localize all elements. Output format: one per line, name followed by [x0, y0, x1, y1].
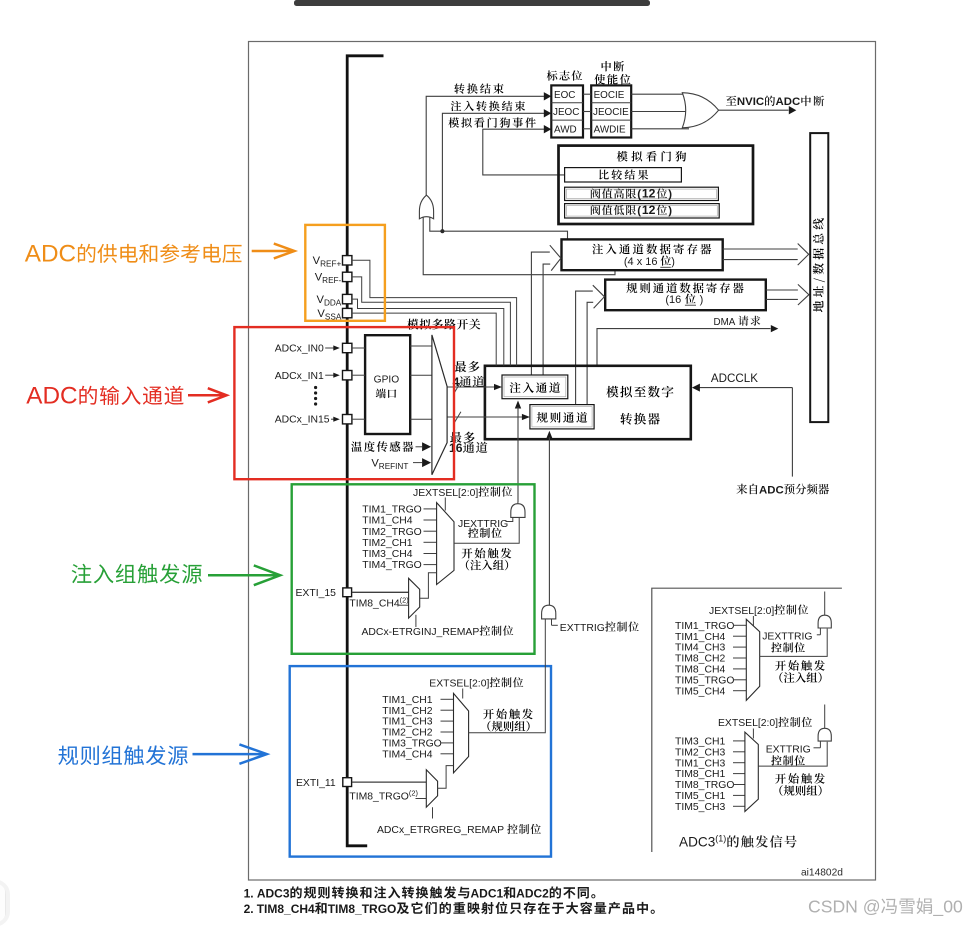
block: analog watchdog — [559, 146, 754, 224]
pin: EXTI_11 — [296, 778, 426, 789]
svg-text:TIM8_CH4: TIM8_CH4 — [675, 665, 725, 676]
page top dark bar — [294, 0, 650, 6]
AND gate: EXTTRIG — [542, 604, 556, 619]
svg-text:TIM4_TRGO: TIM4_TRGO — [362, 560, 421, 571]
input: TIM2_CH1 (injected) — [362, 538, 436, 549]
svg-text:1.: 1. — [244, 886, 254, 900]
pin: EXTI_15 — [296, 588, 409, 599]
svg-text:TIM1_CH1: TIM1_CH1 — [382, 695, 432, 706]
wire: injected mux output to AND gate — [454, 518, 519, 543]
input: TIM5_CH4 (ADC3 injected) — [675, 686, 746, 697]
label: from ADC prescaler — [737, 484, 830, 497]
box: watchdog high threshold — [565, 187, 719, 201]
wire: injected conversion end into OR gate — [430, 217, 568, 239]
svg-text:EXTSEL[2:0]: EXTSEL[2:0] — [718, 718, 778, 729]
input: TIM5_CH1 (ADC3 regular) — [675, 791, 745, 802]
svg-text:_00: _00 — [932, 897, 963, 918]
label: start trigger regular group — [483, 709, 533, 732]
label: interrupt enable bits — [594, 61, 630, 84]
svg-text:TIM8_TRGO: TIM8_TRGO — [675, 780, 734, 791]
register: status flags EOC/JEOC/AWD — [551, 85, 583, 137]
svg-text:ADC2: ADC2 — [516, 886, 549, 900]
label: JEXTTRIG control bit (ADC3) — [762, 628, 820, 653]
svg-text:TIM1_CH4: TIM1_CH4 — [362, 516, 412, 527]
label: start trigger regular group (ADC3) — [775, 773, 825, 796]
bus arrow: injected channels to injected register — [531, 245, 561, 375]
input: TIM5_TRGO (ADC3 injected) — [675, 675, 746, 686]
mux: regular trigger select — [454, 693, 469, 773]
input: TIM1_TRGO (injected) — [362, 505, 436, 516]
svg-text:CSDN @: CSDN @ — [808, 897, 881, 917]
label: VREFINT — [371, 457, 431, 471]
block: analog to digital converter — [485, 366, 691, 439]
block: GPIO port — [365, 335, 410, 434]
svg-text:JEXTSEL[2:0]: JEXTSEL[2:0] — [413, 488, 478, 499]
svg-text:12: 12 — [642, 203, 656, 217]
svg-text:ADCx_IN15: ADCx_IN15 — [275, 415, 330, 426]
svg-text:DDA: DDA — [324, 298, 342, 307]
wire: JEOCIE to OR gate — [631, 111, 686, 113]
box: compare result — [565, 168, 682, 182]
svg-text:ADC: ADC — [759, 484, 784, 496]
label: EXTTRIG control bit (ADC3) — [766, 741, 821, 765]
input: TIM1_CH2 (regular) — [382, 706, 453, 717]
svg-text:TIM3_CH4: TIM3_CH4 — [362, 549, 412, 560]
svg-text:ADC3: ADC3 — [679, 835, 715, 850]
svg-text:ai14802d: ai14802d — [801, 867, 843, 878]
label: figure id ai14802d — [801, 867, 843, 878]
pin: ADCx_IN0 — [275, 343, 352, 354]
svg-text:12: 12 — [642, 187, 656, 201]
mux: ADC3 regular trigger select — [745, 732, 758, 811]
svg-text:TIM8_CH4: TIM8_CH4 — [349, 599, 399, 610]
AND gate: JEXTTRIG (ADC3) — [818, 592, 831, 629]
input: TIM1_CH4 (ADC3 injected) — [675, 632, 746, 643]
input: TIM2_TRGO (injected) — [362, 527, 436, 538]
svg-text:TIM1_TRGO: TIM1_TRGO — [675, 621, 734, 632]
wire: GPIO to mux c — [410, 418, 432, 420]
ADC3 inset frame — [652, 588, 842, 852]
wire: injected trigger into injected channels — [515, 401, 521, 503]
footnote 2 — [244, 902, 655, 916]
svg-text:2.: 2. — [244, 902, 254, 916]
svg-text:AWD: AWD — [554, 125, 577, 136]
mux: ADC3 injected trigger select — [746, 619, 759, 700]
input: TIM1_CH3 (regular) — [382, 717, 453, 728]
svg-text:TIM2_CH1: TIM2_CH1 — [362, 538, 412, 549]
svg-text:ADCx_ETRGREG_REMAP: ADCx_ETRGREG_REMAP — [377, 825, 504, 836]
bus arrow: regular register to bus — [766, 284, 809, 305]
highlight box: ADC input channels — [234, 327, 454, 479]
register: interrupt enables EOCIE/JEOCIE/AWDIE — [591, 85, 631, 137]
svg-text:EXTSEL[2:0]: EXTSEL[2:0] — [429, 679, 489, 690]
svg-text:TIM5_CH1: TIM5_CH1 — [675, 791, 725, 802]
wire: DMA request — [597, 316, 778, 366]
label: TIM8_CH4 remap input — [349, 596, 408, 610]
annotation: regular group trigger source — [58, 744, 266, 765]
wire: remap control stub (regular) — [432, 807, 434, 818]
label: up to 4 channels — [453, 361, 485, 389]
annotation: injected group trigger source — [72, 564, 281, 585]
svg-text:JEOC: JEOC — [553, 107, 579, 118]
input: TIM2_CH3 (ADC3 regular) — [675, 747, 745, 758]
input: TIM1_CH4 (injected) — [362, 516, 436, 527]
svg-text:REFINT: REFINT — [379, 462, 409, 471]
annotation: ADC supply and reference voltage — [25, 240, 295, 267]
svg-text:(16: (16 — [665, 294, 681, 306]
wire: ADCCLK — [692, 372, 793, 477]
svg-text:TIM5_CH3: TIM5_CH3 — [675, 802, 725, 813]
label: start trigger injected group — [462, 548, 512, 571]
OR gate: ADC interrupt to NVIC — [682, 93, 718, 128]
svg-text:TIM5_TRGO: TIM5_TRGO — [675, 675, 734, 686]
floating corner button — [0, 880, 8, 926]
input: TIM4_TRGO (injected) — [362, 560, 436, 571]
pin: VSSA — [317, 308, 496, 366]
svg-text:REF-: REF- — [322, 276, 341, 285]
AND gate: EXTTRIG (ADC3) — [818, 705, 831, 742]
svg-text:GPIO: GPIO — [374, 374, 400, 385]
svg-text:ADC1: ADC1 — [471, 886, 504, 900]
svg-text:EOC: EOC — [554, 90, 575, 101]
svg-text:ADC: ADC — [26, 382, 77, 409]
svg-text:ADCx_IN1: ADCx_IN1 — [275, 371, 324, 382]
box: injected channels — [502, 375, 568, 399]
svg-text:(4 x 16: (4 x 16 — [624, 256, 658, 268]
svg-text:): ) — [668, 189, 672, 201]
watermark CSDN — [808, 897, 963, 918]
svg-text:): ) — [671, 256, 675, 268]
input: TIM3_TRGO (regular) — [382, 739, 453, 750]
wire: mux to regular channels (up to 16) — [447, 412, 530, 423]
svg-text:REF+: REF+ — [320, 260, 341, 269]
label: JEXTSEL control bits — [413, 487, 512, 511]
wire: analog watchdog event to AWD flag — [448, 117, 564, 175]
svg-text:TIM4_CH3: TIM4_CH3 — [675, 643, 725, 654]
label: JEXTSEL control bits (ADC3) — [709, 605, 808, 626]
svg-text:EXTI_15: EXTI_15 — [296, 588, 337, 599]
register: injected channel data (4x16) — [562, 239, 723, 270]
label: ADCx-ETRGINJ_REMAP control bit — [362, 626, 514, 638]
wire: mux to injected channels (up to 4) — [447, 382, 502, 393]
analog input rail — [347, 56, 383, 846]
label: TIM8_TRGO remap input — [349, 788, 426, 802]
analog mux — [407, 319, 480, 475]
svg-text:TIM8_TRGO: TIM8_TRGO — [328, 902, 397, 916]
pin: ADCx_IN15 — [275, 415, 352, 426]
svg-text:TIM8_CH4: TIM8_CH4 — [257, 902, 315, 916]
svg-text:TIM1_CH2: TIM1_CH2 — [382, 706, 432, 717]
svg-text:16: 16 — [449, 441, 463, 455]
AND gate: JEXTTRIG — [511, 502, 525, 517]
svg-text:JEXTTRIG: JEXTTRIG — [762, 632, 812, 643]
svg-text:EXTI_11: EXTI_11 — [296, 778, 336, 789]
mux: injected external trigger remap — [409, 578, 420, 618]
wire: regular conversion end into OR gate — [423, 217, 615, 275]
svg-text:TIM1_CH3: TIM1_CH3 — [382, 717, 432, 728]
wire: end-of-conversion to EOC flag — [426, 83, 551, 196]
label: ADCx_ETRGREG_REMAP control bit — [377, 824, 541, 836]
block: address/data bus — [810, 133, 828, 422]
ellipsis dots input channels — [314, 386, 317, 406]
svg-text:DMA: DMA — [714, 317, 736, 328]
label: flag bits — [547, 70, 582, 80]
pin: VDDA — [317, 294, 504, 366]
label: JEXTTRIG control bit — [458, 517, 513, 538]
wire: injected end-of-conversion to JEOC flag — [442, 101, 551, 231]
svg-text:): ) — [668, 205, 672, 217]
input: TIM3_CH4 (injected) — [362, 549, 436, 560]
input: TIM8_CH1 (ADC3 regular) — [675, 769, 745, 780]
svg-text:TIM1_TRGO: TIM1_TRGO — [362, 505, 421, 516]
svg-text:TIM1_CH3: TIM1_CH3 — [675, 758, 725, 769]
svg-text:JEXTSEL[2:0]: JEXTSEL[2:0] — [709, 606, 774, 617]
bus arrow: injected register to bus — [723, 244, 809, 266]
label: ADC3 trigger signals title — [679, 834, 797, 850]
svg-text:TIM1_CH4: TIM1_CH4 — [675, 632, 725, 643]
wire: AWDIE to OR gate — [631, 128, 689, 130]
svg-text:TIM2_CH3: TIM2_CH3 — [675, 747, 725, 758]
input: TIM1_CH3 (ADC3 regular) — [675, 758, 745, 769]
wire: GPIO to mux a — [410, 345, 432, 347]
pin: VREF- — [315, 272, 511, 366]
highlight box: ADC supply and reference — [305, 225, 385, 321]
svg-text:): ) — [700, 294, 704, 306]
wire: EOC to EOCIE stub — [583, 93, 591, 95]
box: watchdog low threshold — [565, 203, 720, 218]
wire: IN15 pad to GPIO — [352, 418, 365, 420]
svg-text:TIM8_CH1: TIM8_CH1 — [675, 769, 725, 780]
wire: IN0 pad to GPIO — [352, 347, 365, 349]
input: TIM4_CH3 (ADC3 injected) — [675, 643, 746, 654]
svg-text:TIM2_TRGO: TIM2_TRGO — [362, 527, 421, 538]
svg-text:ADC: ADC — [776, 96, 801, 108]
svg-text:EOCIE: EOCIE — [594, 90, 625, 101]
label: EXTSEL control bits — [429, 677, 523, 698]
highlight box: injected trigger group — [292, 484, 535, 654]
wire: remap mux to injected mux — [420, 573, 437, 599]
register: regular channel data (16) — [605, 280, 766, 311]
OR gate: EOC sources — [419, 195, 433, 219]
svg-text:AWDIE: AWDIE — [594, 125, 626, 136]
input: TIM2_CH2 (regular) — [382, 728, 453, 739]
wire: regular trigger into regular channels — [546, 431, 552, 607]
wire: GPIO to mux b — [410, 374, 432, 376]
wire: regular mux output to AND gate — [469, 620, 546, 733]
svg-text:ADCx_IN0: ADCx_IN0 — [275, 344, 324, 355]
input: TIM8_CH2 (ADC3 injected) — [675, 654, 746, 665]
svg-text:NVIC: NVIC — [737, 96, 764, 108]
wire: JEOC to JEOCIE stub — [583, 111, 591, 113]
highlight box: regular trigger group — [290, 666, 551, 857]
wire: ADC3 regular mux to AND gate — [758, 742, 827, 766]
input: TIM8_CH4 (ADC3 injected) — [675, 665, 746, 676]
svg-text:TIM3_CH1: TIM3_CH1 — [675, 737, 725, 748]
svg-text:(: ( — [637, 205, 641, 217]
wire: interrupt request to NVIC — [719, 96, 825, 115]
label: temperature sensor — [351, 441, 431, 452]
input: TIM1_TRGO (ADC3 injected) — [675, 621, 746, 632]
svg-text:TIM8_CH2: TIM8_CH2 — [675, 654, 725, 665]
svg-text:EXTTRIG: EXTTRIG — [766, 745, 811, 756]
bus arrow: regular channels to regular register — [576, 285, 605, 404]
pin: ADCx_IN1 — [275, 371, 352, 382]
svg-text:(2): (2) — [409, 788, 418, 797]
svg-text:TIM2_CH2: TIM2_CH2 — [382, 728, 432, 739]
label: EXTTRIG control bit — [552, 619, 639, 634]
svg-text:(: ( — [637, 189, 641, 201]
svg-text:TIM3_TRGO: TIM3_TRGO — [382, 739, 441, 750]
box: regular channels — [530, 405, 594, 429]
label: start trigger injected group (ADC3) — [775, 660, 825, 683]
svg-text:ADC3: ADC3 — [257, 886, 290, 900]
svg-text:ADCCLK: ADCCLK — [711, 372, 758, 385]
svg-text:EXTTRIG: EXTTRIG — [560, 623, 605, 634]
svg-text:ADC: ADC — [25, 240, 76, 267]
label: up to 16 channels — [449, 432, 487, 455]
wire: IN1 pad to GPIO — [352, 374, 365, 376]
wire: AWD to AWDIE stub — [583, 128, 591, 130]
pin: VREF+ — [313, 255, 517, 366]
annotation: ADC input channels — [26, 382, 226, 409]
diagram frame — [249, 42, 876, 881]
mux: injected trigger select — [437, 503, 454, 585]
svg-text:TIM8_TRGO: TIM8_TRGO — [349, 791, 408, 802]
wire: remap mux to regular mux — [438, 766, 454, 789]
input: TIM8_TRGO (ADC3 regular) — [675, 780, 745, 791]
svg-text:ADCx-ETRGINJ_REMAP: ADCx-ETRGINJ_REMAP — [362, 627, 480, 638]
svg-text:JEOCIE: JEOCIE — [593, 107, 629, 118]
wire: remap control stub (injected) — [415, 615, 417, 627]
mux: regular external trigger remap — [426, 770, 437, 808]
svg-text:TIM4_CH4: TIM4_CH4 — [382, 749, 432, 760]
input: TIM1_CH1 (regular) — [382, 695, 453, 706]
input: TIM4_CH4 (regular) — [382, 749, 453, 760]
label: EXTSEL control bits (ADC3) — [718, 717, 812, 739]
svg-text:TIM5_CH4: TIM5_CH4 — [675, 686, 725, 697]
svg-text:(1): (1) — [715, 834, 726, 844]
svg-text:(2): (2) — [400, 596, 409, 605]
input: TIM5_CH3 (ADC3 regular) — [675, 802, 745, 813]
wire: EOCIE to OR gate — [631, 93, 689, 95]
wire: ADC3 injected mux to AND gate — [760, 629, 828, 657]
input: TIM3_CH1 (ADC3 regular) — [675, 737, 745, 748]
footnote 1 — [244, 886, 596, 900]
